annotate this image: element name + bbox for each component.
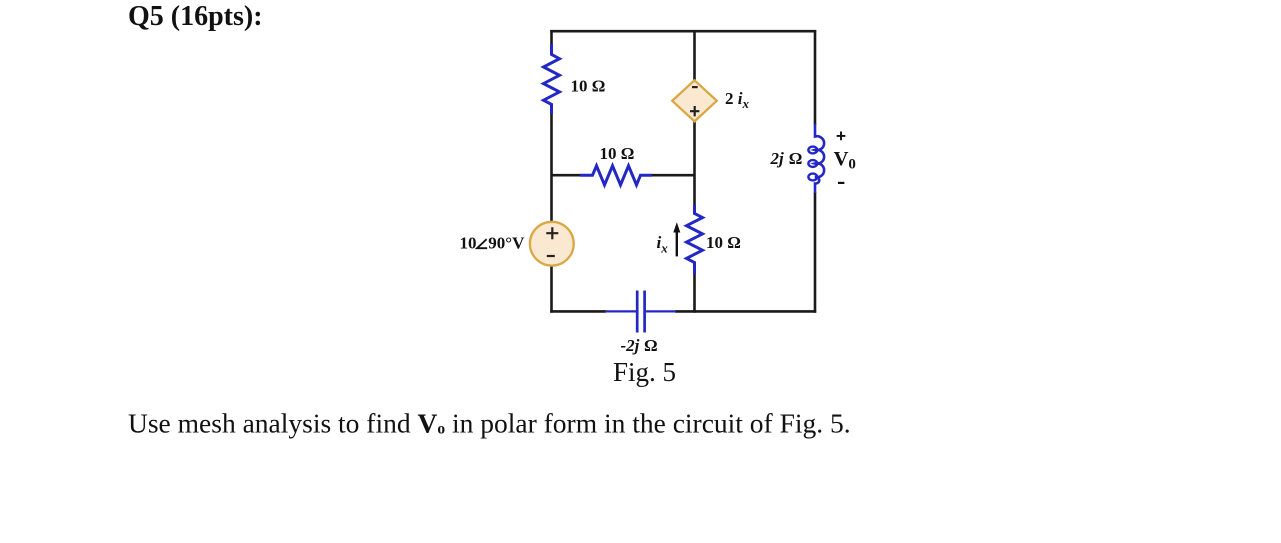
svg-text:Ω: Ω (644, 336, 658, 355)
svg-text:10 Ω: 10 Ω (600, 144, 635, 163)
svg-text:Q5 (16pts):: Q5 (16pts): (128, 1, 263, 32)
svg-text:10 Ω: 10 Ω (706, 233, 741, 252)
svg-text:ix: ix (657, 233, 669, 256)
svg-text:90°V: 90°V (488, 234, 525, 253)
svg-text:V0: V0 (834, 148, 856, 172)
svg-text:-2j: -2j (621, 336, 640, 355)
svg-text:Fig. 5: Fig. 5 (613, 357, 676, 387)
svg-text:Ω: Ω (789, 149, 803, 168)
svg-text:Use mesh analysis to find Vo i: Use mesh analysis to find Vo in polar fo… (128, 408, 851, 439)
svg-text:10 Ω: 10 Ω (571, 77, 606, 96)
svg-text:2j: 2j (770, 149, 785, 168)
svg-text:10: 10 (460, 234, 477, 253)
svg-text:2 ix: 2 ix (725, 89, 749, 111)
